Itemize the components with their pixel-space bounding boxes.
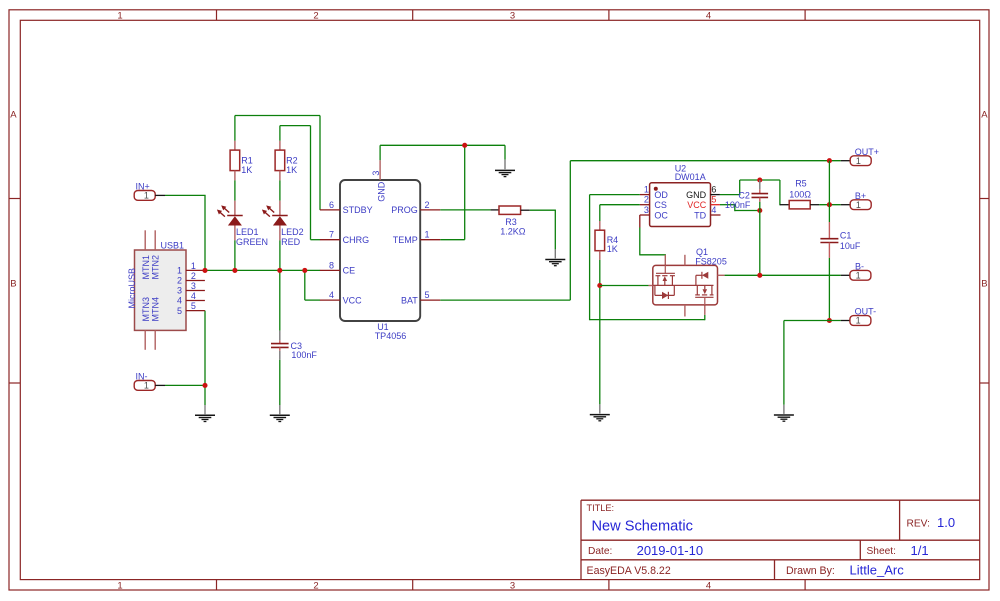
svg-text:GND: GND xyxy=(377,181,387,202)
svg-text:1.2KΩ: 1.2KΩ xyxy=(500,226,526,236)
svg-text:TITLE:: TITLE: xyxy=(587,503,615,513)
svg-text:1: 1 xyxy=(856,271,861,281)
svg-text:CHRG: CHRG xyxy=(343,235,370,245)
svg-text:OC: OC xyxy=(654,210,668,220)
svg-text:IN+: IN+ xyxy=(136,182,150,192)
svg-text:Drawn By:: Drawn By: xyxy=(786,565,835,577)
svg-text:A: A xyxy=(981,110,988,121)
svg-text:5: 5 xyxy=(191,301,196,311)
svg-text:1K: 1K xyxy=(607,244,618,254)
svg-text:2: 2 xyxy=(425,200,430,210)
svg-text:RED: RED xyxy=(281,237,301,247)
svg-text:1: 1 xyxy=(117,10,122,21)
svg-text:1: 1 xyxy=(144,191,149,201)
svg-text:1: 1 xyxy=(117,580,122,591)
svg-text:LED1: LED1 xyxy=(236,227,259,237)
svg-text:4: 4 xyxy=(706,580,711,591)
svg-text:3: 3 xyxy=(510,10,515,21)
svg-text:MTN3: MTN3 xyxy=(141,297,151,322)
svg-text:3: 3 xyxy=(644,205,649,215)
svg-text:1: 1 xyxy=(425,230,430,240)
svg-text:1K: 1K xyxy=(286,165,297,175)
svg-text:2: 2 xyxy=(177,276,182,286)
svg-text:4: 4 xyxy=(177,296,182,306)
svg-text:1/1: 1/1 xyxy=(911,543,929,558)
svg-text:6: 6 xyxy=(329,200,334,210)
svg-text:REV:: REV: xyxy=(907,519,930,530)
svg-text:5: 5 xyxy=(177,306,182,316)
svg-text:PROG: PROG xyxy=(391,205,418,215)
svg-text:LED2: LED2 xyxy=(281,227,304,237)
svg-text:DW01A: DW01A xyxy=(675,172,706,182)
svg-text:B+: B+ xyxy=(855,191,866,201)
svg-text:OUT-: OUT- xyxy=(855,307,877,317)
svg-text:Q1: Q1 xyxy=(696,247,708,257)
svg-text:TP4056: TP4056 xyxy=(375,331,407,341)
svg-text:1: 1 xyxy=(856,316,861,326)
svg-text:TD: TD xyxy=(694,210,706,220)
svg-text:1: 1 xyxy=(644,185,649,195)
svg-text:1: 1 xyxy=(191,261,196,271)
svg-text:A: A xyxy=(10,110,17,121)
svg-text:100nF: 100nF xyxy=(291,350,317,360)
svg-text:4: 4 xyxy=(329,290,334,300)
svg-text:USB1: USB1 xyxy=(161,240,185,250)
svg-text:Sheet:: Sheet: xyxy=(867,546,896,557)
svg-text:6: 6 xyxy=(711,185,716,195)
svg-text:4: 4 xyxy=(706,10,711,21)
svg-text:GREEN: GREEN xyxy=(236,237,268,247)
svg-text:1: 1 xyxy=(144,381,149,391)
svg-text:2: 2 xyxy=(313,580,318,591)
svg-text:BAT: BAT xyxy=(401,295,418,305)
svg-text:3: 3 xyxy=(510,580,515,591)
svg-text:CE: CE xyxy=(343,266,356,276)
svg-text:TEMP: TEMP xyxy=(393,235,418,245)
svg-text:MTN2: MTN2 xyxy=(150,255,160,280)
svg-text:3: 3 xyxy=(191,281,196,291)
svg-text:R5: R5 xyxy=(795,179,807,189)
svg-text:3: 3 xyxy=(177,286,182,296)
svg-text:CS: CS xyxy=(654,200,667,210)
svg-text:100nF: 100nF xyxy=(725,200,751,210)
svg-text:STDBY: STDBY xyxy=(343,205,373,215)
svg-text:EasyEDA V5.8.22: EasyEDA V5.8.22 xyxy=(587,565,671,577)
svg-text:MTN1: MTN1 xyxy=(141,255,151,280)
svg-text:5: 5 xyxy=(711,195,716,205)
svg-text:2: 2 xyxy=(191,271,196,281)
svg-text:2: 2 xyxy=(313,10,318,21)
svg-text:New Schematic: New Schematic xyxy=(592,519,693,535)
svg-text:IN-: IN- xyxy=(136,372,148,382)
svg-text:Little_Arc: Little_Arc xyxy=(850,563,905,578)
svg-text:R3: R3 xyxy=(505,217,517,227)
svg-text:GND: GND xyxy=(686,190,707,200)
svg-text:OD: OD xyxy=(654,190,668,200)
svg-text:FS8205: FS8205 xyxy=(695,256,727,266)
svg-text:B-: B- xyxy=(855,261,864,271)
svg-text:1: 1 xyxy=(856,156,861,166)
svg-text:4: 4 xyxy=(191,291,196,301)
svg-text:10uF: 10uF xyxy=(840,241,861,251)
svg-text:OUT+: OUT+ xyxy=(855,147,879,157)
svg-text:2019-01-10: 2019-01-10 xyxy=(637,543,704,558)
svg-text:1: 1 xyxy=(856,200,861,210)
svg-text:Date:: Date: xyxy=(588,546,612,557)
svg-text:B: B xyxy=(981,278,987,289)
svg-text:VCC: VCC xyxy=(343,295,363,305)
svg-text:1: 1 xyxy=(177,266,182,276)
svg-text:B: B xyxy=(10,278,16,289)
svg-text:3: 3 xyxy=(371,171,381,176)
svg-text:C1: C1 xyxy=(840,231,852,241)
svg-text:MTN4: MTN4 xyxy=(150,297,160,322)
svg-text:VCC: VCC xyxy=(687,200,707,210)
svg-text:1K: 1K xyxy=(241,165,252,175)
svg-text:8: 8 xyxy=(329,260,334,270)
svg-text:7: 7 xyxy=(329,230,334,240)
svg-text:100Ω: 100Ω xyxy=(789,189,811,199)
svg-text:2: 2 xyxy=(644,195,649,205)
svg-text:5: 5 xyxy=(425,290,430,300)
svg-text:4: 4 xyxy=(711,205,716,215)
svg-text:MicroUSB: MicroUSB xyxy=(127,268,137,309)
svg-text:1.0: 1.0 xyxy=(937,515,955,530)
